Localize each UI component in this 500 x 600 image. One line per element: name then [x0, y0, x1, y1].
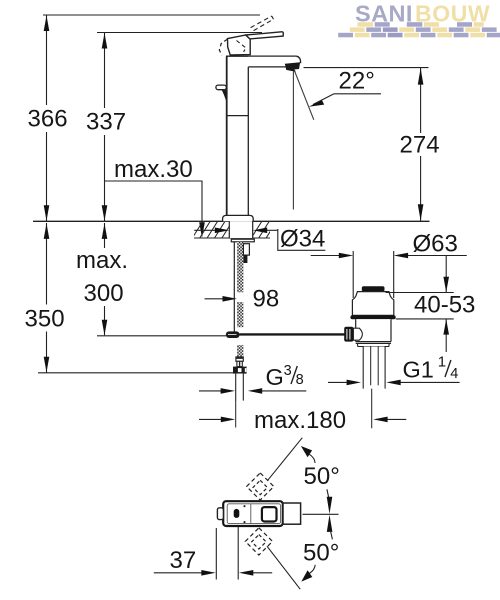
- svg-text:366: 366: [28, 106, 68, 133]
- lever hidden edge dashes: [237, 41, 247, 52]
- svg-text:4: 4: [450, 366, 458, 382]
- svg-text:300: 300: [84, 280, 124, 307]
- svg-text:22°: 22°: [339, 68, 375, 95]
- svg-text:1: 1: [438, 354, 446, 371]
- drain extension lines for diameter 63: [353, 251, 394, 298]
- faucet spout arm underside: [248, 56, 300, 67]
- label G 1 1/4 fraction slash: [445, 360, 451, 377]
- shank hole through deck: [229, 221, 252, 238]
- extension line top of faucet body y=32.5: [97, 32, 262, 34]
- deck hatching right of shank: [251, 221, 277, 239]
- dimension 337 vertical line: [85, 33, 126, 222]
- pop-up rod knob on body: [216, 85, 226, 90]
- pop-up rod dark wedge: [222, 90, 226, 101]
- dimension 366 vertical line: [27, 15, 68, 221]
- mounting washer under deck: [231, 239, 254, 242]
- drain collar: [356, 343, 391, 346]
- spout aerator nozzle: [285, 62, 300, 71]
- svg-text:50°: 50°: [304, 463, 340, 490]
- deck hatching left of shank: [192, 221, 233, 239]
- faucet body tower front view: [226, 56, 296, 215]
- dimension 98 leader arrow: [205, 286, 280, 313]
- dashed rotated handle lower outer: [245, 528, 272, 555]
- svg-text:G: G: [266, 364, 284, 390]
- dashed lifted lever arm: [251, 16, 274, 31]
- svg-text:350: 350: [25, 306, 65, 333]
- svg-text:Ø63: Ø63: [413, 231, 458, 258]
- faucet body joint line: [227, 115, 249, 117]
- label G 1 1/4: [403, 354, 459, 383]
- dimension 37 extension lines: [216, 527, 238, 580]
- drain rod knob: [344, 327, 353, 342]
- dashed rotated handle lower inner: [252, 535, 266, 549]
- extension line hose end y=372.8: [38, 372, 233, 374]
- svg-text:37: 37: [170, 547, 197, 574]
- rotation limit line lower: [267, 546, 300, 589]
- braided supply hose segment 3: [237, 345, 243, 357]
- logo brick wall row 3: [338, 33, 500, 38]
- svg-text:3: 3: [284, 363, 292, 379]
- extension line spout outlet y=67.6: [304, 67, 429, 69]
- extension line hose axis: [235, 401, 237, 428]
- dimension max.300 vertical line below deck: [74, 223, 130, 335]
- top view handle inner outline: [227, 504, 280, 524]
- svg-text:337: 337: [86, 109, 126, 136]
- svg-text:50°: 50°: [303, 539, 339, 566]
- dashed rotated knuckle outline: [219, 39, 227, 55]
- rotation limit line upper: [267, 438, 302, 481]
- countertop deck top line: [33, 220, 430, 222]
- logo brick wall row 2: [350, 27, 497, 32]
- center mark converging arrows: [327, 489, 333, 539]
- dimension 40-53: [386, 256, 476, 353]
- extension line pop-up rod y=335.8: [97, 335, 226, 337]
- dimension 37 arrows and label: [154, 547, 272, 576]
- drain pop-up cap: [362, 286, 385, 291]
- lever handle arm: [246, 32, 284, 39]
- label G 3/8 fraction slash: [291, 366, 297, 384]
- dimension G 3/8 arrows: [199, 388, 306, 394]
- svg-text:8: 8: [296, 372, 304, 388]
- lever handle knuckle: [228, 35, 251, 55]
- logo SANI BOUW wordmark: [355, 0, 490, 26]
- top view pull rod tab: [217, 508, 223, 520]
- label G 3/8: [266, 363, 304, 390]
- mounting stud and nut: [243, 244, 249, 263]
- top view spout opening square: [262, 507, 277, 521]
- svg-text:Ø34: Ø34: [280, 226, 325, 253]
- hose end tube: [236, 374, 244, 401]
- dimension diameter 34 arrows: [194, 228, 278, 234]
- drain lower body: [356, 319, 391, 341]
- dimension 350 vertical line below deck: [24, 223, 66, 373]
- top view alignment dots: [244, 505, 246, 523]
- dimension max.180 arrows: [199, 407, 406, 434]
- svg-text:40-53: 40-53: [414, 292, 475, 319]
- logo brick wall row 1: [358, 22, 484, 27]
- extension line drain axis: [371, 389, 373, 429]
- drain o-ring seal band: [350, 315, 395, 319]
- hose ferrule: [236, 357, 243, 367]
- svg-text:max.: max.: [76, 247, 128, 274]
- top view handle outer body: [223, 501, 283, 526]
- top view centerline: [303, 513, 339, 515]
- braided supply hose segment 2: [237, 302, 243, 327]
- svg-text:max.30: max.30: [114, 156, 193, 183]
- faucet base plate: [223, 215, 254, 221]
- pop-up rod coupling: [226, 331, 240, 338]
- dimension G 1 1/4 arrows: [328, 380, 460, 386]
- dashed rotated handle upper outer: [247, 473, 274, 500]
- arc arrow upper 50 degrees: [301, 446, 315, 463]
- svg-text:max.180: max.180: [254, 407, 346, 434]
- dimension diameter 34 label bracket: [278, 226, 326, 253]
- G 3/8 connection nut: [233, 367, 247, 374]
- top view pivot pill: [234, 509, 240, 518]
- dimension 22 degrees label and leader: [309, 68, 381, 107]
- dimension diameter 63: [311, 231, 467, 259]
- drain upper flange body: [352, 292, 393, 316]
- dashed rotated handle upper inner: [253, 480, 267, 494]
- braided supply hose segment 1: [237, 242, 243, 292]
- svg-text:274: 274: [400, 132, 440, 159]
- water stream vertical centerline: [292, 70, 294, 210]
- extension line top of lifted lever y=15: [43, 14, 260, 16]
- svg-text:G1: G1: [403, 356, 434, 382]
- water stream 22 degree slant line: [294, 69, 314, 120]
- svg-text:98: 98: [253, 286, 280, 313]
- drain tailpipe: [363, 347, 385, 389]
- drain rod connector: [353, 328, 362, 340]
- dimension max.30 bracket: [105, 156, 205, 238]
- pop-up pull rod below deck: [233, 242, 235, 332]
- countertop deck bottom line: [194, 237, 270, 239]
- arc arrow lower 50 degrees: [301, 565, 315, 582]
- dimension 274 vertical line: [399, 68, 441, 221]
- horizontal pop-up rod to drain: [240, 333, 346, 335]
- top view spout arm: [283, 503, 301, 524]
